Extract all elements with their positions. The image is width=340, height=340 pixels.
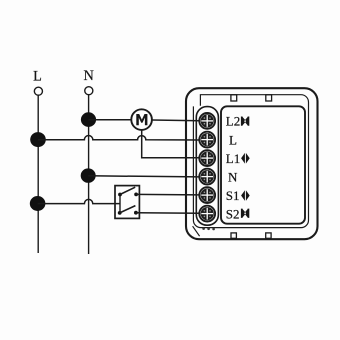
device bottom clip tab 1 — [231, 233, 236, 238]
label L2 with close icon — [226, 114, 250, 129]
switch SW1 box — [115, 186, 139, 219]
switch blade 2 — [120, 206, 136, 213]
wire L junction to switch (hops over N line) — [38, 199, 120, 203]
switch blade 1 — [120, 187, 135, 194]
label S2 with close icon — [226, 206, 250, 221]
wire N junction to motor — [89, 119, 133, 121]
terminal screw S1 — [199, 187, 215, 203]
device bottom-left chamfer — [193, 226, 200, 236]
svg-text:N: N — [84, 68, 94, 84]
wire L vertical — [37, 95, 39, 253]
device bottom clip tab 2 — [266, 233, 271, 238]
terminal circle N — [85, 87, 93, 95]
svg-text:S1: S1 — [226, 188, 240, 203]
device top clip tab 1 — [231, 95, 237, 101]
svg-text:L: L — [33, 69, 42, 85]
label panel — [221, 106, 305, 223]
wire motor to terminal L2 — [152, 119, 200, 122]
wire L junction to terminal L (hops over N line and motor wire) — [38, 136, 200, 141]
terminal block — [196, 107, 218, 226]
device top clip tab 2 — [266, 95, 272, 101]
switch contact dot 2 — [134, 211, 138, 215]
device U1 inner case line — [193, 95, 308, 228]
terminal screw L2 — [199, 113, 215, 129]
junction dot N-motor — [81, 112, 96, 127]
pin dots — [202, 227, 205, 230]
label S1 with open icon — [226, 188, 250, 203]
label L1 with open icon — [226, 151, 250, 166]
motor M1 — [131, 109, 152, 130]
switch common bar — [119, 195, 121, 214]
terminal screw N — [199, 169, 215, 185]
wire N junction to terminal N — [88, 176, 199, 177]
junction dot L-switch — [30, 196, 46, 211]
junction dot L-L — [30, 132, 46, 147]
switch pivot dot 2 — [118, 211, 122, 215]
wire N vertical — [88, 95, 90, 254]
terminal screw S2 — [199, 206, 215, 222]
svg-text:L: L — [229, 132, 237, 147]
terminal screw L1 — [199, 150, 215, 166]
svg-text:N: N — [228, 169, 238, 184]
junction dot N-N — [81, 168, 96, 182]
svg-text:L1: L1 — [226, 151, 240, 166]
wire motor to terminal L1 — [142, 130, 200, 158]
switch pivot dot 1 — [118, 193, 122, 197]
terminal circle L — [34, 87, 42, 95]
svg-text:L2: L2 — [226, 114, 240, 129]
terminal screw L — [199, 132, 215, 148]
wire switch to terminal S2 — [136, 212, 200, 215]
svg-text:S2: S2 — [226, 206, 240, 221]
device U1 outer case — [186, 88, 318, 239]
wire switch to terminal S1 — [136, 193, 200, 196]
switch contact dot 1 — [134, 193, 138, 197]
